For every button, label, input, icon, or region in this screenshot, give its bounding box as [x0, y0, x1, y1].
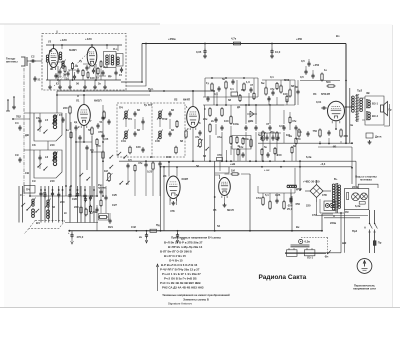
wire mid h left drop	[56, 91, 58, 113]
svg-text:Вч: Вч	[336, 34, 340, 38]
heater caps wires	[261, 133, 263, 136]
svg-text:+ЧВС-30-250: +ЧВС-30-250	[303, 180, 320, 184]
svg-text:0,01: 0,01	[316, 100, 322, 104]
svg-text:Элементы схемы В: Элементы схемы В	[183, 298, 209, 302]
svg-text:вч: вч	[139, 236, 143, 239]
svg-text:-9В: -9В	[332, 145, 336, 149]
svg-text:0,1: 0,1	[270, 75, 274, 79]
svg-text:68: 68	[228, 98, 231, 102]
resistor R34	[262, 198, 264, 205]
svg-text:А: А	[364, 226, 366, 230]
misc dots mid	[209, 160, 211, 162]
wire +120 rail inside FM box	[46, 44, 122, 46]
fuse holder box	[324, 201, 335, 211]
resistor R18	[230, 137, 232, 144]
FM can rect 2	[117, 54, 124, 67]
cluster2 left wire	[204, 78, 206, 97]
wire column v1	[29, 119, 31, 196]
svg-text:С9: С9	[15, 153, 19, 157]
det switch arrows	[117, 154, 118, 155]
ps bottom wires	[320, 212, 344, 214]
cluster top wires	[213, 91, 215, 105]
tube V1b (6Н3П triode b)	[87, 47, 97, 66]
wires above bus	[96, 205, 98, 231]
left heater winding	[287, 185, 289, 187]
if box extra res	[176, 122, 178, 127]
resistor R33 1М	[232, 173, 238, 175]
page edge right	[392, 25, 394, 307]
V7 top wire	[215, 175, 220, 179]
tube V6 (6П14П output)	[328, 101, 345, 121]
svg-text:300: 300	[344, 134, 349, 138]
mid column wire	[102, 105, 104, 196]
svg-text:100: 100	[90, 76, 95, 80]
svg-text:С: С	[20, 193, 22, 197]
pot area switches	[119, 183, 120, 184]
resistor R28	[321, 74, 323, 80]
v2 bottom wires	[69, 113, 71, 130]
FM box filler res f	[100, 62, 102, 67]
speaker circuit box	[365, 96, 384, 125]
wire V2 area verticals	[75, 130, 77, 196]
svg-text:47к: 47к	[292, 119, 297, 123]
mid cluster drops	[204, 105, 206, 161]
wire V1a cathode down	[57, 66, 59, 80]
svg-text:82: 82	[137, 128, 140, 132]
mid col cap2	[101, 134, 104, 136]
svg-text:82: 82	[171, 128, 174, 132]
svg-text:Д2В: Д2В	[248, 119, 253, 123]
rectifier bridge	[310, 185, 323, 198]
v2 switch a	[79, 175, 80, 176]
svg-text:82: 82	[137, 108, 140, 112]
svg-text:270: 270	[296, 137, 301, 141]
tube V7 (6Е1П tuning eye)	[219, 178, 231, 196]
junction det	[245, 104, 247, 106]
svg-text:4а: 4а	[350, 123, 353, 127]
svg-text:Л-ч: Л-ч	[113, 47, 118, 51]
svg-text:напряжения сети: напряжения сети	[353, 288, 376, 291]
svg-text:100: 100	[283, 92, 288, 96]
bandbox1 inner cap	[38, 119, 41, 121]
capacitor C33	[304, 70, 307, 72]
cluster2 bottom wire	[203, 104, 295, 106]
svg-text:6,3в: 6,3в	[355, 204, 361, 208]
power transformer left winding	[332, 184, 335, 187]
antenna jack symbol	[21, 57, 25, 66]
svg-text:+120: +120	[60, 38, 67, 42]
mains pole ticks	[368, 231, 371, 233]
resistor R14	[209, 109, 211, 116]
svg-text:0,5: 0,5	[300, 75, 304, 79]
FM can rect 1	[104, 52, 117, 68]
resistor R17	[230, 117, 232, 124]
svg-text:0,05: 0,05	[103, 137, 109, 141]
FM box top pins	[61, 45, 63, 49]
svg-text:В-ЛГ Вч-ЛГ О-ЗУ 296 В: В-ЛГ Вч-ЛГ О-ЗУ 296 В	[160, 250, 192, 254]
svg-text:РчС Сз 2В 4В 4В 9В 9ВУ 9ВВ: РчС Сз 2В 4В 4В 9В 9ВУ 9ВВ	[160, 281, 201, 285]
switch Вч	[327, 253, 328, 254]
svg-text:56: 56	[88, 128, 91, 132]
motor connector Дв	[366, 133, 373, 138]
bus corner up right	[321, 214, 323, 231]
cluster2 right wire	[257, 78, 259, 97]
svg-text:Тр2: Тр2	[357, 89, 362, 93]
wire mid horizontal 2	[57, 94, 150, 96]
svg-text:ПЗ: ПЗ	[241, 88, 245, 92]
capacitor C10 on bus	[203, 50, 206, 52]
capacitor C34	[311, 74, 314, 76]
svg-text:~6,3: ~6,3	[320, 162, 326, 166]
AF drop wires	[160, 167, 162, 231]
svg-text:5н: 5н	[258, 133, 261, 137]
mid col switch a	[109, 157, 110, 158]
resistor R27	[289, 90, 291, 96]
V7 left wire	[214, 161, 216, 231]
tube V3 (6К4П IF amplifier)	[187, 107, 200, 128]
svg-text:0,25: 0,25	[275, 193, 281, 197]
page edge line top	[0, 23, 160, 25]
resistor R16	[221, 109, 223, 116]
V6 cathode cap C35	[327, 131, 330, 133]
svg-text:ВЗ-1: ВЗ-1	[372, 102, 378, 106]
svg-text:Гр: Гр	[389, 108, 392, 112]
wire V1b down	[95, 64, 97, 80]
svg-text:С25: С25	[112, 193, 117, 197]
comp on rail 470	[217, 158, 223, 161]
antenna terminal A1	[7, 100, 9, 111]
cluster2 dots	[216, 104, 218, 106]
capacitor C30	[217, 87, 220, 89]
bus left terminal	[68, 230, 70, 232]
svg-text:L6: L6	[45, 155, 49, 159]
upper right extra parts	[296, 90, 299, 92]
wire rail161 ext	[300, 160, 356, 162]
FM box filler cap e	[92, 69, 95, 71]
svg-text:47к: 47к	[138, 161, 143, 165]
capacitor C13 left	[18, 158, 21, 160]
wire drop x292	[291, 196, 293, 231]
wire rail168	[161, 166, 353, 168]
wires lower mid	[262, 193, 264, 197]
svg-text:СВ: СВ	[25, 171, 29, 175]
svg-text:С35: С35	[155, 139, 160, 143]
wire x250 drop	[249, 174, 251, 231]
svg-text:47: 47	[250, 83, 253, 87]
svg-text:0,1: 0,1	[230, 87, 234, 91]
svg-text:15: 15	[119, 73, 122, 77]
small box ПЧ	[24, 186, 35, 194]
FM box bottom rail	[46, 79, 121, 81]
svg-text:Signature Antonov: Signature Antonov	[168, 302, 192, 306]
wire drop 352a	[351, 147, 353, 168]
ground C10	[204, 54, 206, 56]
svg-text:С28: С28	[72, 197, 77, 201]
power trafo hatch	[335, 183, 338, 184]
svg-text:470: 470	[98, 130, 103, 134]
power transformer right winding	[338, 185, 341, 188]
capacitor C22	[107, 120, 110, 122]
svg-text:25,0: 25,0	[287, 207, 293, 211]
bus cap drop 1	[146, 231, 148, 234]
output transformer primary	[352, 96, 355, 99]
speaker matching coil 1	[368, 100, 371, 103]
svg-text:С: С	[204, 107, 206, 111]
IF can dashed box	[117, 103, 185, 157]
svg-text:Б+: Б+	[334, 177, 338, 181]
ps left cap	[290, 189, 292, 199]
FM coil near V1a	[59, 52, 62, 55]
band switch box 2 (СВ)	[34, 150, 62, 178]
resistor R35	[269, 202, 271, 209]
comp above bus	[100, 216, 107, 219]
wire det h top	[240, 104, 284, 106]
V7 right wires	[225, 173, 230, 175]
resistor R22	[211, 84, 213, 90]
svg-text:Л: Л	[77, 94, 79, 98]
wire B plus drop right	[345, 44, 347, 144]
cluster2 vert fills	[216, 92, 218, 105]
FM box filler cap c	[73, 75, 76, 77]
junction dots FM rail	[57, 79, 59, 81]
coil L5 with arrow	[54, 116, 56, 118]
svg-text:68: 68	[203, 154, 206, 158]
wire osc bottom h	[65, 222, 98, 224]
capacitor C12 left	[18, 126, 21, 128]
junction v6c	[328, 143, 330, 145]
svg-text:56: 56	[196, 164, 199, 168]
svg-text:6Х2П: 6Х2П	[182, 177, 189, 181]
wire rail173 jog	[215, 167, 229, 173]
svg-text:ВЧ: ВЧ	[36, 221, 40, 225]
terminal ПВ	[12, 118, 14, 120]
svg-text:ЛЗ-1: ЛЗ-1	[307, 256, 313, 260]
resistor R24	[243, 84, 245, 90]
resistor R10	[69, 107, 71, 113]
wire det cluster	[245, 105, 247, 124]
osc dots extra	[40, 189, 42, 191]
capacitor C4	[76, 69, 79, 71]
mid col cap1	[101, 116, 104, 118]
svg-text:4,7к: 4,7к	[231, 37, 237, 41]
svg-text:240: 240	[50, 179, 55, 183]
svg-text:0,5: 0,5	[301, 59, 305, 63]
bridge diode marks	[313, 188, 320, 194]
svg-text:+нВ: +нВ	[230, 162, 235, 166]
wire drop 352b	[351, 168, 353, 184]
svg-text:15: 15	[59, 113, 62, 117]
svg-text:160: 160	[136, 145, 141, 149]
svg-text:0,01: 0,01	[279, 124, 285, 128]
svg-text:68: 68	[291, 84, 294, 88]
resistor R29 500	[328, 85, 334, 87]
capacitor C24	[214, 118, 217, 120]
IF trafo2 caps	[168, 112, 171, 114]
svg-text:470: 470	[217, 153, 222, 157]
svg-text:С42: С42	[131, 225, 136, 229]
IF trafo 2 secondary	[159, 131, 162, 134]
svg-text:Л2: Л2	[174, 98, 178, 102]
svg-text:С27: С27	[112, 203, 117, 207]
v2 area filler e	[85, 146, 88, 148]
svg-text:6Е1П: 6Е1П	[227, 208, 234, 212]
resistor R25	[265, 88, 267, 94]
osc coil extra 2	[47, 210, 50, 213]
svg-text:ДВ: ДВ	[25, 133, 29, 137]
wire V6 bottom	[335, 121, 337, 129]
capacitor C5	[85, 66, 88, 68]
svg-text:39: 39	[75, 64, 78, 68]
svg-text:150: 150	[277, 153, 282, 157]
capacitor C8 antenna	[33, 77, 36, 79]
extra wire y152	[92, 151, 103, 153]
volume pot	[108, 174, 111, 181]
bus junction dots	[136, 230, 138, 232]
bplus drop dots	[345, 80, 347, 82]
dial lamp X2	[361, 193, 368, 200]
svg-text:56: 56	[76, 82, 79, 86]
svg-text:С55: С55	[322, 193, 327, 197]
svg-text:20а: 20а	[270, 130, 275, 134]
svg-text:ПЧ: ПЧ	[128, 117, 132, 121]
capacitor C27	[254, 126, 257, 128]
wire r17 v	[230, 126, 232, 136]
svg-text:С40: С40	[166, 155, 171, 159]
V6 grid cap	[322, 106, 324, 109]
svg-text:6К4П: 6К4П	[183, 98, 190, 102]
resistor R31	[340, 130, 342, 136]
wires cluster3	[265, 80, 267, 88]
svg-text:Л1: Л1	[76, 99, 80, 103]
resistor R2	[82, 71, 84, 76]
ps drop wires	[340, 213, 342, 253]
lamp box small parts	[347, 193, 349, 200]
svg-text:2д: 2д	[74, 120, 77, 124]
speaker matching coil 2	[368, 112, 371, 115]
band switch box 1 (ДВ)	[34, 113, 62, 141]
electrolytic ground	[71, 238, 73, 241]
svg-text:220: 220	[306, 204, 311, 208]
capacitor C16	[84, 198, 87, 200]
cluster2 part d	[253, 94, 255, 99]
tuning gang parallelogram (dashed)	[29, 221, 65, 229]
svg-text:5,1: 5,1	[265, 193, 269, 197]
wire v2 bottom h	[76, 141, 92, 143]
svg-text:Л3: Л3	[163, 174, 167, 178]
wire drop 356	[355, 161, 357, 186]
wire c33 up	[305, 66, 307, 69]
junction c2	[211, 77, 213, 79]
page edge line bottom	[0, 307, 400, 309]
svg-text:ВЗ-4: ВЗ-4	[372, 114, 378, 118]
svg-text:6,3в: 6,3в	[306, 155, 312, 159]
speaker Гр	[381, 105, 384, 112]
IF trafo1 caps	[133, 112, 136, 114]
svg-text:В=Л Вч 25 В-Р в 27В-29в 27: В=Л Вч 25 В-Р в 27В-29в 27	[164, 241, 203, 245]
fuse holder circles	[325, 204, 329, 208]
svg-text:5б: 5б	[217, 224, 220, 228]
svg-text:ПЧ: ПЧ	[119, 106, 123, 110]
svg-text:2у: 2у	[79, 59, 82, 63]
svg-text:А: А	[333, 214, 335, 218]
coil L8 with arrow	[47, 200, 49, 202]
coil L7 with arrow	[32, 199, 34, 201]
svg-text:1с: 1с	[90, 211, 93, 215]
wire right rail 143	[258, 142, 352, 144]
v2 switch b	[86, 179, 87, 180]
svg-text:470,0: 470,0	[77, 235, 84, 239]
svg-text:6И1П: 6И1П	[94, 99, 102, 103]
FM input coil L1	[46, 55, 48, 57]
wire v4 h	[140, 160, 215, 162]
lamp rect 2	[304, 250, 315, 256]
FM IF transformer coils	[106, 55, 109, 58]
svg-text:С57: С57	[312, 213, 317, 217]
svg-text:47к: 47к	[270, 87, 275, 91]
svg-text:100: 100	[224, 119, 229, 123]
cluster2 top wire	[205, 77, 258, 79]
lamp rect 1	[287, 250, 298, 256]
FM unit enclosure (dashed)	[42, 34, 126, 91]
V2 anode wire	[83, 95, 85, 105]
cluster3 part b	[286, 97, 288, 102]
left chain wires	[100, 186, 102, 190]
wire FM box out right 2	[126, 44, 146, 87]
bandbox2 inner cap	[38, 156, 41, 158]
vert link 295-105	[294, 80, 296, 105]
wire x220 drop	[219, 161, 221, 171]
IF trafo 1 primary	[125, 111, 128, 114]
switch contact S3c	[35, 211, 36, 212]
rail161 left heavier	[119, 160, 140, 162]
capacitor C31	[249, 88, 252, 90]
wire lm drop	[257, 186, 259, 193]
coupling capacitor C7	[120, 68, 123, 70]
svg-text:ЛЗ: ЛЗ	[345, 210, 349, 214]
main ground bus	[69, 230, 322, 232]
mid band extra wires	[237, 155, 239, 161]
wire lamp box up	[358, 184, 378, 188]
IF wiring	[125, 117, 127, 127]
V3 cathode parts	[185, 131, 187, 137]
svg-text:Пр2: Пр2	[352, 229, 358, 233]
svg-text:240: 240	[50, 143, 55, 147]
resistor R9	[89, 206, 91, 212]
mid col switch b	[109, 167, 110, 168]
switch contact S2a	[37, 166, 38, 167]
svg-text:Л4: Л4	[313, 92, 317, 96]
svg-text:Применяемые напряжения БЧ схем: Применяемые напряжения БЧ схемы	[171, 236, 222, 240]
svg-text:82: 82	[293, 144, 296, 148]
heater caps row	[260, 136, 263, 138]
wire antenna to FM box	[27, 60, 42, 62]
svg-text:Рч-об 1 Эч Б ЗГ 1 Эч 29в 27: Рч-об 1 Эч Б ЗГ 1 Эч 29в 27	[162, 272, 201, 276]
wire antenna down	[29, 63, 31, 119]
resistor R32	[298, 130, 300, 136]
svg-text:750: 750	[313, 129, 318, 133]
v2 area filler a	[61, 118, 64, 120]
V3 anode wire	[192, 91, 194, 107]
v2 area filler c	[78, 136, 81, 138]
power plug circle	[357, 259, 372, 274]
svg-text:антенны: антенны	[6, 61, 18, 64]
svg-text:R1: R1	[49, 49, 53, 53]
svg-text:6П14П: 6П14П	[321, 92, 330, 96]
svg-text:6ж: 6ж	[261, 81, 264, 85]
electrolytic C19 470,0	[71, 231, 73, 233]
V7 ground	[224, 203, 226, 205]
svg-text:С31: С31	[121, 139, 126, 143]
